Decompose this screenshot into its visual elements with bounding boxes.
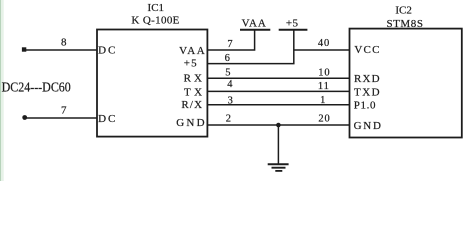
wire: IC1 pin 6 +5 up to +5 power port [207, 30, 293, 64]
svg-text:RX: RX [184, 73, 205, 85]
svg-text:RXD: RXD [354, 73, 381, 85]
svg-text:VAA: VAA [179, 45, 206, 57]
wire: IC1 pin 5 RX to IC2 pin 10 RXD [207, 77, 349, 79]
svg-text:VCC: VCC [354, 44, 380, 56]
svg-text:20: 20 [318, 113, 330, 124]
svg-text:P1.0: P1.0 [354, 99, 376, 111]
wire: +5 rail to IC2 pin 40 VCC [294, 49, 350, 51]
svg-text:11: 11 [318, 81, 330, 92]
svg-text:6: 6 [225, 53, 230, 64]
svg-text:+5: +5 [184, 58, 198, 70]
svg-text:DC24---DC60: DC24---DC60 [2, 80, 71, 95]
svg-text:DC: DC [98, 113, 117, 125]
junction dot on GND net [276, 123, 281, 128]
svg-text:IC1: IC1 [148, 2, 165, 14]
ground symbol [268, 164, 289, 171]
svg-text:7: 7 [227, 39, 232, 50]
svg-text:3: 3 [228, 96, 233, 107]
svg-text:TX: TX [184, 86, 206, 98]
svg-text:IC2: IC2 [395, 5, 412, 17]
wire: ground drop from GND net junction [277, 125, 279, 164]
wire: IC1 pin 2 GND to IC2 pin 20 GND [207, 124, 349, 126]
terminal lead (pin 8) [22, 47, 26, 51]
svg-text:DC: DC [98, 45, 117, 57]
power port bar +5 [279, 29, 308, 31]
IC1 component box [97, 30, 207, 137]
svg-text:1: 1 [320, 95, 325, 106]
svg-text:VAA: VAA [242, 18, 267, 30]
power port bar VAA [240, 29, 270, 31]
svg-text:TXD: TXD [354, 87, 381, 99]
wire: IC1 pin 3 R/X to IC2 pin 1 P1.0 [207, 104, 349, 106]
svg-text:GND: GND [354, 120, 383, 132]
wire: left terminal to IC1 pin 8 (DC) [25, 49, 97, 51]
terminal lead (pin 7) [22, 115, 27, 120]
svg-text:GND: GND [176, 117, 206, 129]
svg-text:10: 10 [318, 67, 330, 78]
svg-text:7: 7 [61, 105, 67, 117]
wire: IC1 pin 7 VAA up to VAA power port [207, 30, 254, 50]
IC2 component box [350, 29, 462, 138]
svg-text:K Q-100E: K Q-100E [131, 15, 179, 27]
wire: left terminal to IC1 pin 7 (DC) [25, 117, 97, 119]
svg-text:+5: +5 [286, 18, 299, 30]
svg-text:40: 40 [318, 38, 330, 49]
svg-text:STM8S: STM8S [387, 18, 424, 30]
wire: IC1 pin 4 TX to IC2 pin 11 TXD [207, 90, 349, 92]
svg-text:4: 4 [227, 79, 233, 90]
svg-text:R/X: R/X [181, 99, 203, 111]
svg-text:5: 5 [225, 68, 230, 79]
left edge green tint (decorative) [0, 0, 1, 181]
svg-text:8: 8 [61, 37, 67, 49]
svg-text:2: 2 [226, 114, 231, 125]
